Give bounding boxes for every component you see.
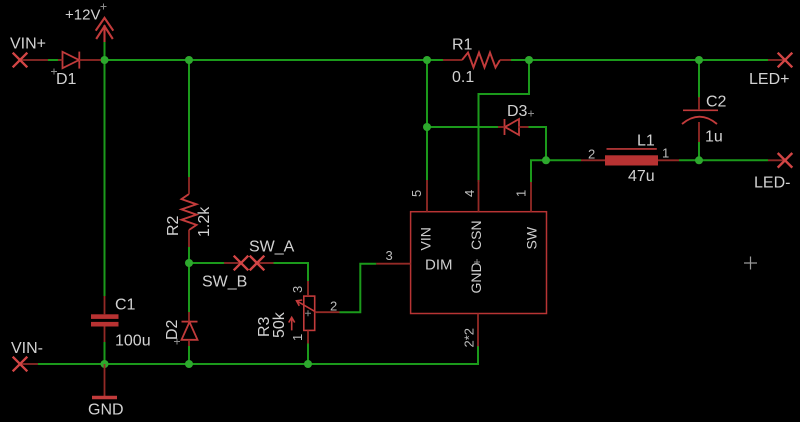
wire C1 column upper	[104, 60, 106, 296]
pin of port SW_A	[224, 262, 240, 264]
R3 wiper arrow	[297, 300, 316, 312]
junction SW_B node	[185, 259, 193, 267]
L1 pin 1	[658, 159, 679, 161]
junction top rail at +12V/C1	[101, 56, 109, 64]
svg-text:4: 4	[462, 190, 477, 197]
svg-text:1: 1	[514, 190, 529, 197]
svg-text:GND: GND	[88, 402, 124, 419]
IC pin 5 stub	[426, 180, 428, 212]
svg-text:SW_A: SW_A	[249, 239, 295, 256]
D1 anode pin	[58, 59, 63, 61]
junction VIN node at D3	[423, 123, 431, 131]
C2 bottom pin	[698, 122, 700, 142]
wire R3 pin 1 to bottom rail	[307, 344, 309, 365]
wire L1 pin 1 to LED-	[679, 159, 768, 161]
port LED+	[778, 53, 793, 68]
junction top rail at R2	[185, 56, 193, 64]
trimmer R3 body	[304, 296, 315, 330]
pin of port SW_B	[258, 262, 274, 264]
ground symbol GND	[92, 364, 117, 398]
wire C2 column lower	[698, 142, 700, 160]
junction SW node	[542, 156, 550, 164]
svg-text:SW: SW	[524, 226, 540, 249]
IC U1 box	[411, 212, 547, 314]
origin cross of D3	[528, 111, 534, 117]
svg-text:1.2k: 1.2k	[196, 206, 213, 237]
svg-text:C1: C1	[115, 297, 136, 314]
svg-text:D1: D1	[56, 71, 77, 88]
svg-text:C2: C2	[706, 94, 727, 111]
wire VIN node to IC pin 5	[426, 127, 428, 180]
svg-text:47u: 47u	[628, 168, 655, 185]
wire top rail D1 cathode to R1	[101, 59, 443, 61]
svg-text:3: 3	[386, 248, 393, 263]
svg-text:D3: D3	[507, 103, 528, 120]
svg-text:1: 1	[662, 146, 669, 161]
R1 left pin	[443, 59, 462, 61]
R3 adjust arrow	[289, 317, 295, 330]
wire +12V stem to top rail	[104, 41, 106, 60]
wire R1 right jog to IC pin 4	[479, 60, 530, 182]
wire SW node to L1 pin 2	[546, 159, 581, 161]
wire R2 column upper	[188, 60, 190, 177]
svg-text:0.1: 0.1	[452, 69, 474, 86]
capacitor C1	[91, 314, 119, 326]
pin of port LED-	[768, 159, 785, 161]
svg-text:+12V: +12V	[65, 7, 100, 24]
R3 pin 2 (wiper)	[315, 311, 340, 313]
wire R1 left down to VIN node	[426, 60, 428, 127]
inductor L1	[605, 149, 658, 166]
svg-text:1: 1	[290, 334, 305, 341]
IC pin 3 stub	[376, 263, 410, 265]
svg-text:50k: 50k	[271, 311, 288, 338]
IC pin 1 stub	[530, 182, 532, 212]
svg-text:VIN: VIN	[418, 227, 434, 250]
C1 top pin	[104, 296, 106, 314]
D1 cathode pin	[79, 59, 101, 61]
svg-text:VIN+: VIN+	[10, 36, 46, 53]
svg-text:L1: L1	[637, 133, 655, 150]
resistor R1	[462, 53, 500, 68]
wire VIN+ to D1 anode	[48, 59, 58, 61]
wire R2 column lower	[188, 247, 190, 263]
svg-text:GND: GND	[468, 262, 484, 293]
wire VIN node to D3	[427, 126, 498, 128]
R3 pin 3 (top)	[307, 281, 309, 296]
wire D3 to SW node	[529, 127, 547, 160]
junction R1 left	[423, 56, 431, 64]
svg-text:5: 5	[409, 190, 424, 197]
junction C2 bottom	[695, 156, 703, 164]
pin of port VIN+	[20, 59, 48, 61]
junction R3 at bottom rail	[304, 360, 312, 368]
diode D3	[505, 119, 520, 135]
R2 bottom pin	[188, 230, 190, 247]
svg-text:CSN: CSN	[468, 220, 484, 250]
origin cross of R3	[305, 310, 311, 316]
svg-text:D2: D2	[164, 319, 181, 340]
svg-text:SW_B: SW_B	[202, 274, 247, 291]
diode D2	[182, 322, 198, 340]
svg-text:1u: 1u	[705, 129, 723, 146]
wire R3 wiper to DIM pin 3	[340, 264, 377, 313]
origin cross of D2	[174, 339, 180, 345]
svg-text:2: 2	[330, 299, 337, 314]
port LED-	[778, 153, 793, 168]
wire C1 column lower	[104, 342, 106, 364]
svg-text:R1: R1	[452, 37, 473, 54]
sheet origin cross	[744, 257, 757, 270]
wire top rail R1 to LED+	[511, 59, 768, 61]
pin of port LED+	[768, 59, 785, 61]
svg-text:DIM: DIM	[425, 257, 453, 274]
origin cross of D1	[51, 69, 57, 75]
port VIN-	[13, 357, 28, 372]
diode D1	[63, 52, 80, 69]
resistor R2	[182, 194, 197, 230]
svg-text:3: 3	[290, 286, 305, 293]
supply symbol +12V	[96, 18, 114, 42]
origin cross of +12V	[101, 4, 107, 10]
R2 top pin	[188, 177, 190, 194]
svg-text:LED+: LED+	[749, 71, 789, 88]
L1 pin 2	[581, 159, 605, 161]
capacitor C2	[682, 110, 718, 124]
R3 pin 1 (bottom)	[307, 330, 309, 343]
R1 right pin	[500, 59, 511, 61]
wire bottom rail VIN- to IC pin 2	[38, 346, 478, 364]
C1 bottom pin	[104, 327, 106, 343]
wire D2 column lower	[188, 346, 190, 364]
IC pin 4 stub	[478, 180, 480, 212]
D3 cathode pin	[498, 126, 505, 128]
port SW_B	[250, 256, 265, 271]
D3 anode pin	[519, 126, 529, 128]
svg-text:LED-: LED-	[754, 175, 790, 192]
pin of port VIN-	[20, 363, 38, 365]
origin cross of IC U1	[474, 259, 480, 265]
wire SW node to IC pin 1	[531, 160, 546, 182]
svg-text:100u: 100u	[115, 333, 151, 350]
wire D2 column upper	[188, 263, 190, 312]
port SW_A	[234, 256, 249, 271]
D2 anode pin	[188, 340, 190, 346]
svg-text:2: 2	[588, 147, 595, 162]
junction C2 top	[695, 56, 703, 64]
svg-text:VIN-: VIN-	[11, 340, 43, 357]
wire C2 column upper	[698, 60, 700, 98]
svg-text:R2: R2	[165, 215, 182, 236]
junction C1 at bottom rail	[101, 360, 109, 368]
C2 top pin	[698, 97, 700, 110]
junction D2 at bottom rail	[185, 360, 193, 368]
junction R1 right	[525, 56, 533, 64]
wire SW_B node to SW_A port	[189, 262, 224, 264]
wire SW_B port to R3 pin 3	[274, 263, 309, 281]
D2 cathode pin	[188, 312, 190, 322]
port VIN+	[13, 53, 28, 68]
svg-text:2*2: 2*2	[462, 328, 477, 348]
IC pin 2 stub (bottom)	[477, 314, 479, 347]
